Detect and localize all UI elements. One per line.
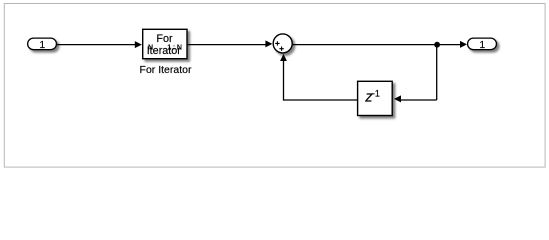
inport 1 bbox=[28, 38, 57, 50]
wire: feedback horizontal to Unit Delay bbox=[401, 99, 437, 101]
svg-text:-1: -1 bbox=[372, 88, 380, 98]
wire: Sum to Outport bbox=[293, 44, 461, 46]
svg-text:1 : N: 1 : N bbox=[167, 44, 182, 51]
For Iterator block bbox=[143, 29, 187, 58]
sum block bbox=[273, 34, 292, 53]
wire: Unit Delay output to left bbox=[284, 99, 358, 101]
svg-text:N: N bbox=[148, 44, 153, 51]
unit delay block bbox=[358, 81, 393, 115]
svg-text:For: For bbox=[156, 33, 173, 45]
sum plus sign (left input) bbox=[275, 41, 279, 45]
outport 1 bbox=[468, 38, 497, 50]
wire: feedback vertical right bbox=[436, 45, 438, 100]
junction node bbox=[434, 42, 440, 48]
arrowhead into Outport bbox=[460, 41, 467, 48]
diagram frame border bbox=[4, 4, 545, 168]
wire: feedback vertical up to Sum bbox=[283, 61, 285, 101]
canvas background bbox=[0, 0, 549, 172]
arrowhead into For Iterator bbox=[135, 41, 142, 48]
wire: inport to For Iterator bbox=[57, 44, 136, 46]
svg-text:1: 1 bbox=[39, 40, 45, 51]
arrowhead into Sum bottom bbox=[280, 54, 287, 61]
svg-text:For Iterator: For Iterator bbox=[140, 64, 192, 76]
sum plus sign (bottom input) bbox=[279, 47, 283, 51]
svg-text:1: 1 bbox=[479, 40, 485, 51]
arrowhead into Sum bbox=[265, 40, 272, 47]
arrowhead into Unit Delay bbox=[394, 95, 401, 102]
wire: For Iterator to Sum bbox=[187, 44, 267, 46]
